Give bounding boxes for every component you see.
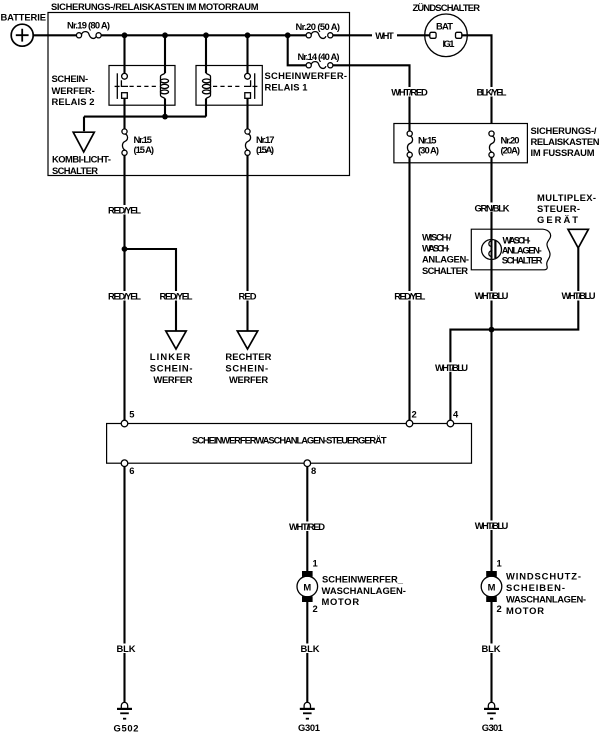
svg-text:GRN/BLK: GRN/BLK xyxy=(475,202,510,213)
svg-text:M: M xyxy=(488,582,496,593)
svg-text:WHT/BLU: WHT/BLU xyxy=(475,290,509,301)
svg-text:RED/YEL: RED/YEL xyxy=(394,291,425,302)
svg-text:SCHEIN-: SCHEIN- xyxy=(52,73,89,84)
svg-text:RED: RED xyxy=(239,291,257,302)
svg-text:SCHEIBEN-: SCHEIBEN- xyxy=(506,582,565,593)
svg-text:WERFER: WERFER xyxy=(153,374,192,385)
svg-text:SCHALTER: SCHALTER xyxy=(52,165,98,176)
svg-text:(15 A): (15 A) xyxy=(134,144,155,155)
svg-text:SCHEINWERFER_: SCHEINWERFER_ xyxy=(322,574,404,585)
svg-text:RECHTER: RECHTER xyxy=(225,351,271,362)
svg-text:SCHEIN-: SCHEIN- xyxy=(225,363,268,374)
svg-text:6: 6 xyxy=(129,465,134,476)
svg-text:ANLAGEN-: ANLAGEN- xyxy=(422,254,469,265)
svg-text:WERFER-: WERFER- xyxy=(52,85,95,96)
svg-text:GERÄT: GERÄT xyxy=(537,214,578,225)
svg-text:RELAIS 2: RELAIS 2 xyxy=(52,96,95,107)
svg-text:BLK: BLK xyxy=(117,643,136,654)
svg-text:8: 8 xyxy=(311,465,316,476)
svg-text:2: 2 xyxy=(497,603,502,614)
svg-text:WASCH-: WASCH- xyxy=(422,243,450,254)
svg-text:G301: G301 xyxy=(298,722,320,733)
svg-text:WHT: WHT xyxy=(375,30,394,41)
svg-text:WHT/BLU: WHT/BLU xyxy=(562,290,596,301)
svg-text:IM FUSSRAUM: IM FUSSRAUM xyxy=(531,147,595,158)
svg-text:SICHERUNGS-/RELAISKASTEN IM MO: SICHERUNGS-/RELAISKASTEN IM MOTORRAUM xyxy=(51,1,259,12)
svg-text:RELAIS 1: RELAIS 1 xyxy=(265,82,308,93)
svg-text:WERFER: WERFER xyxy=(229,374,268,385)
svg-text:MULTIPLEX-: MULTIPLEX- xyxy=(537,192,596,203)
svg-text:KOMBI-LICHT-: KOMBI-LICHT- xyxy=(52,154,111,165)
svg-text:WASCHANLAGEN-: WASCHANLAGEN- xyxy=(322,585,406,596)
svg-text:2: 2 xyxy=(412,409,417,420)
svg-text:WHT/RED: WHT/RED xyxy=(289,521,325,532)
svg-text:STEUER-: STEUER- xyxy=(537,203,580,214)
svg-text:RED/YEL: RED/YEL xyxy=(108,291,141,302)
svg-text:MOTOR: MOTOR xyxy=(506,605,544,616)
svg-text:SCHEIN-: SCHEIN- xyxy=(150,363,193,374)
svg-text:G301: G301 xyxy=(482,722,503,733)
svg-text:SCHEINWERFER-: SCHEINWERFER- xyxy=(265,70,348,81)
svg-text:Nr.20 (50 A): Nr.20 (50 A) xyxy=(296,21,341,32)
svg-text:(15A): (15A) xyxy=(256,144,274,155)
svg-text:WHT/BLU: WHT/BLU xyxy=(475,520,509,531)
svg-text:(20A): (20A) xyxy=(501,145,521,156)
svg-text:SCHALTER: SCHALTER xyxy=(422,265,468,276)
svg-text:(30 A): (30 A) xyxy=(418,145,439,156)
svg-text:IG1: IG1 xyxy=(443,38,455,49)
svg-text:SCHEINWERFERWASCHANLAGEN-STEUE: SCHEINWERFERWASCHANLAGEN-STEUERGERÄT xyxy=(192,435,387,446)
svg-text:WHT/BLU: WHT/BLU xyxy=(435,362,468,373)
svg-text:4: 4 xyxy=(453,409,459,420)
svg-text:WASCHANLAGEN-: WASCHANLAGEN- xyxy=(506,594,586,605)
svg-text:BLK: BLK xyxy=(482,643,501,654)
svg-text:BAT: BAT xyxy=(436,21,453,32)
svg-text:ZÜNDSCHALTER: ZÜNDSCHALTER xyxy=(413,2,481,13)
svg-text:WINDSCHUTZ-: WINDSCHUTZ- xyxy=(506,571,581,582)
svg-text:RED/YEL: RED/YEL xyxy=(160,291,193,302)
svg-text:5: 5 xyxy=(129,409,134,420)
svg-text:WISCH-/: WISCH-/ xyxy=(422,232,452,243)
svg-text:M: M xyxy=(303,582,311,593)
svg-text:RED/YEL: RED/YEL xyxy=(108,205,141,216)
svg-text:Nr.19 (80 A): Nr.19 (80 A) xyxy=(67,20,110,31)
svg-text:LINKER: LINKER xyxy=(150,351,191,362)
svg-text:1: 1 xyxy=(497,558,502,569)
svg-text:SICHERUNGS-/: SICHERUNGS-/ xyxy=(531,125,597,136)
svg-text:BLK/YEL: BLK/YEL xyxy=(477,87,507,98)
svg-text:Nr.14 (40 A): Nr.14 (40 A) xyxy=(298,51,340,62)
svg-text:1: 1 xyxy=(313,558,318,569)
svg-text:BLK: BLK xyxy=(301,643,320,654)
svg-text:WHT/RED: WHT/RED xyxy=(391,87,428,98)
svg-text:RELAISKASTEN: RELAISKASTEN xyxy=(531,136,600,147)
svg-text:SCHALTER: SCHALTER xyxy=(502,254,543,265)
svg-text:2: 2 xyxy=(313,603,318,614)
svg-text:BATTERIE: BATTERIE xyxy=(1,12,47,23)
svg-text:G502: G502 xyxy=(114,723,139,734)
svg-text:MOTOR: MOTOR xyxy=(322,596,360,607)
